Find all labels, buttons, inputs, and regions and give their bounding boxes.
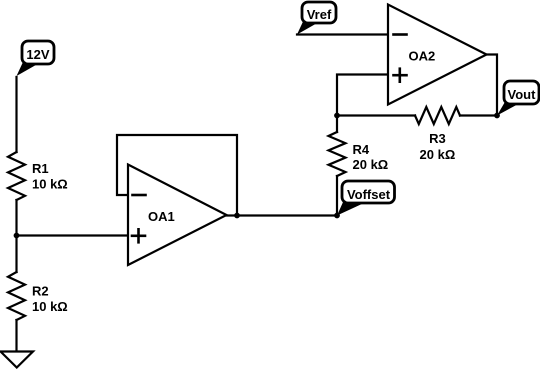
junction node A <box>14 233 20 239</box>
wire R1 to node A <box>15 200 17 236</box>
svg-text:Vout: Vout <box>508 87 537 102</box>
wire node A to R2 <box>15 236 17 273</box>
wire OA1 feedback loop <box>117 135 237 216</box>
wire Vref flag to OA2 minus input <box>297 33 388 35</box>
svg-text:10 kΩ: 10 kΩ <box>32 299 68 314</box>
wire OA1 output to Voffset node <box>227 214 338 216</box>
resistor R4 <box>329 132 389 176</box>
ground <box>1 352 34 368</box>
wire R3/R4 node to R3 <box>337 114 415 116</box>
wire OA2 output to Vout node <box>487 55 498 116</box>
svg-text:OA2: OA2 <box>409 49 436 64</box>
svg-text:Voffset: Voffset <box>347 187 391 202</box>
svg-text:R4: R4 <box>353 142 370 157</box>
wire node A to OA1 plus input <box>17 234 129 236</box>
net flag Vref <box>297 2 336 35</box>
svg-text:R2: R2 <box>32 284 49 299</box>
svg-text:20 kΩ: 20 kΩ <box>420 147 456 162</box>
op-amp OA2 <box>388 5 487 105</box>
junction Vout node <box>494 113 500 119</box>
svg-text:OA1: OA1 <box>148 209 175 224</box>
svg-text:R1: R1 <box>32 161 49 176</box>
wire R4 to Voffset node <box>336 176 338 216</box>
resistor R3 <box>415 107 460 162</box>
wire R2 to ground <box>15 320 17 352</box>
svg-text:20 kΩ: 20 kΩ <box>353 157 389 172</box>
op-amp OA1 <box>128 165 227 266</box>
junction R3/R4 node <box>334 113 340 119</box>
wire R3/R4 node to R4 <box>336 116 338 133</box>
net flag Voffset <box>337 181 395 216</box>
junction Voffset node <box>334 213 340 219</box>
net flag 12V <box>17 41 55 76</box>
wire 12V flag to R1 <box>15 77 17 152</box>
resistor R2 <box>8 272 68 320</box>
svg-text:12V: 12V <box>26 47 49 62</box>
wire R3/R4 node to OA2 plus input <box>337 75 388 116</box>
resistor R1 <box>8 152 68 200</box>
svg-text:R3: R3 <box>429 131 446 146</box>
svg-text:Vref: Vref <box>307 7 332 22</box>
net flag Vout <box>497 81 539 116</box>
svg-text:10 kΩ: 10 kΩ <box>32 177 68 192</box>
junction OA1 output <box>234 213 240 219</box>
wire R3 to Vout node <box>460 114 497 116</box>
